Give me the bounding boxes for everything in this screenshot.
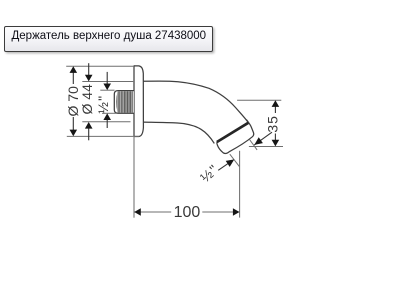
svg-text:Ø 44: Ø 44: [79, 84, 95, 115]
svg-text:100: 100: [174, 204, 201, 221]
svg-text:½": ½": [197, 161, 222, 186]
svg-text:35: 35: [265, 115, 281, 133]
svg-text:½": ½": [95, 95, 111, 114]
